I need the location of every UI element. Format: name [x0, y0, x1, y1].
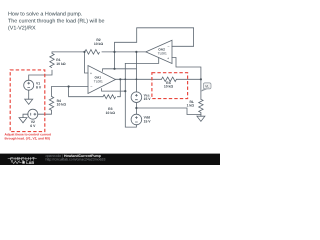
label V1 value 8 V — [36, 82, 42, 90]
label Vcc value 15 V — [144, 93, 152, 101]
svg-text:8 V: 8 V — [36, 85, 42, 89]
node load VL — [200, 78, 202, 80]
wire minus node down to R3 left — [69, 87, 103, 97]
red dashed box RX — [152, 73, 188, 99]
resistor RX — [162, 77, 177, 81]
wire RL bottom to ground — [200, 113, 202, 117]
wire R4 bottom to V2 plus — [38, 110, 52, 114]
footer attribution — [46, 154, 106, 162]
title text — [8, 11, 104, 31]
resistor R2 — [85, 50, 100, 55]
resistor RL — [199, 99, 203, 112]
source V1 — [24, 80, 34, 90]
source Vdd — [131, 114, 142, 125]
wire node A down to OA1 plus input — [85, 52, 89, 73]
svg-text:http://circuitlab.com/cmac24a2: http://circuitlab.com/cmac24a23mo633 — [46, 158, 106, 162]
wire load node down to RL top — [200, 79, 202, 99]
wire OA2 Vminus stub rail — [125, 58, 158, 64]
wire OA1 output to RX left — [116, 78, 162, 80]
svg-text:15 V: 15 V — [144, 120, 152, 124]
label RL value 1 kOhm — [187, 100, 195, 108]
wire V1 bottom to ground — [28, 90, 30, 99]
label Vdd value 15 V — [144, 116, 152, 124]
svg-text:6 V: 6 V — [30, 124, 36, 128]
svg-text:VL: VL — [205, 84, 209, 88]
wire V- rail OA1 — [102, 89, 126, 92]
svg-text:How to solve a Howland pump.: How to solve a Howland pump. — [8, 11, 82, 17]
junction on V+ rail — [113, 68, 115, 70]
wire V1 top to R1 bottom — [29, 70, 52, 80]
junction crossing V- riser — [124, 78, 126, 80]
op-amp OA2 — [146, 40, 172, 63]
junction crossing Vcc riser — [136, 78, 138, 80]
wire V- riser down to Vdd minus — [125, 63, 136, 127]
ground V2 — [19, 118, 27, 123]
wire R1 top to R2 left — [52, 52, 85, 53]
ground right — [197, 116, 205, 121]
svg-text:1 kΩ: 1 kΩ — [187, 104, 195, 108]
wire V+ rail OA1 supply stub — [103, 69, 137, 72]
wire feedback jog OA2 — [115, 28, 194, 69]
junction R3 feedback on OA1 output — [119, 78, 121, 80]
label R4 value 10 kOhm — [57, 99, 67, 107]
label RX value 10 kOhm — [164, 81, 174, 89]
svg-text:10 kΩ: 10 kΩ — [57, 103, 67, 107]
junction Vcc riser on output wire — [135, 51, 137, 53]
wire Vcc riser — [135, 52, 137, 92]
label V2 value 6 V — [30, 120, 36, 128]
svg-text:15 V: 15 V — [144, 97, 152, 101]
resistor R1 — [50, 53, 54, 67]
label R1 value 10 kOhm — [56, 58, 66, 66]
svg-text:(V1-V2)/RX: (V1-V2)/RX — [8, 25, 36, 31]
op-amp OA1 — [88, 66, 116, 94]
label R3 value 10 kOhm — [106, 107, 116, 115]
wire OA1 minus input rail to R4 top — [52, 87, 89, 97]
red annotation text — [5, 133, 53, 141]
ground V1 — [25, 99, 33, 104]
svg-text:through load. (V1, V2, and RX): through load. (V1, V2, and RX) — [5, 137, 51, 141]
svg-text:The current through the load (: The current through the load (RL) will b… — [8, 18, 104, 24]
resistor R4 — [49, 96, 53, 110]
source V2 — [28, 109, 38, 119]
junction minus node to R3 branch — [68, 85, 70, 87]
junction V- rail riser — [124, 90, 126, 92]
svg-text:10 kΩ: 10 kΩ — [106, 111, 116, 115]
svg-text:10 kΩ: 10 kΩ — [164, 85, 174, 89]
wire R3 right up to output — [118, 79, 121, 96]
junction node A at R1 R2 — [83, 51, 85, 53]
wire V2 minus to ground — [23, 114, 28, 117]
wire Vcc minus to Vdd plus — [135, 103, 137, 115]
svg-text:10 kΩ: 10 kΩ — [56, 62, 66, 66]
wire RX right to load node — [176, 78, 201, 80]
wire supply midpoint to right ground — [136, 108, 201, 115]
source Vcc — [131, 92, 142, 103]
junction supply midpoint node — [135, 107, 137, 109]
resistor R3 — [103, 95, 116, 99]
wire R2 right to OA2 output tip — [102, 51, 146, 53]
svg-text:LAB: LAB — [26, 161, 34, 165]
svg-text:TL081: TL081 — [158, 52, 167, 56]
circuitlab logo — [8, 156, 37, 165]
svg-text:10 kΩ: 10 kΩ — [94, 42, 104, 46]
voltmeter bubble VL — [201, 83, 211, 91]
footer black bar — [0, 154, 220, 165]
svg-text:TL081: TL081 — [94, 80, 103, 84]
wire OA2 plus input to load node — [172, 58, 201, 80]
junction OA2 output feedback tap — [113, 51, 115, 53]
red dashed box V1 V2 — [10, 70, 45, 132]
label R2 value 10 kOhm — [94, 38, 104, 46]
